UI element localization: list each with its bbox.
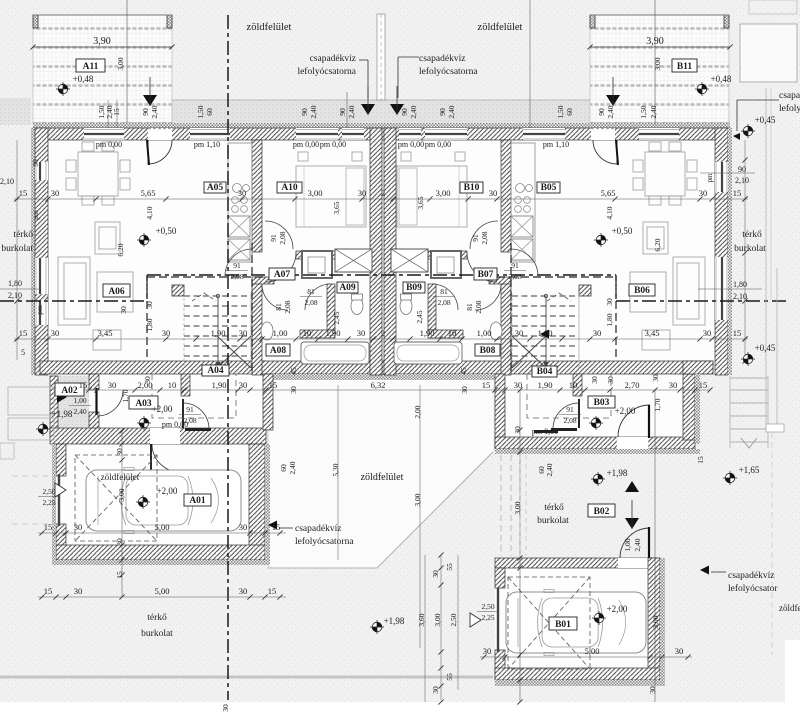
svg-text:1,00: 1,00 [73,396,86,405]
svg-text:3,00: 3,00 [513,501,522,514]
svg-text:A03: A03 [135,399,152,409]
svg-text:1,80: 1,80 [605,313,614,326]
svg-text:+1,98: +1,98 [607,468,628,478]
svg-text:15: 15 [112,108,121,116]
svg-text:+1,98: +1,98 [384,616,405,626]
svg-text:91: 91 [186,405,194,414]
svg-text:15: 15 [269,380,278,390]
svg-text:+0,45: +0,45 [755,343,776,353]
svg-text:81: 81 [465,303,474,311]
svg-text:1,90: 1,90 [420,328,435,338]
svg-text:90: 90 [738,165,746,174]
svg-text:A01: A01 [189,496,206,506]
svg-text:2,40: 2,40 [649,105,658,118]
svg-text:2,40: 2,40 [606,105,615,118]
svg-text:1,90: 1,90 [212,380,227,390]
svg-text:2,10: 2,10 [0,177,14,186]
svg-text:2,08: 2,08 [230,272,243,281]
svg-text:2: 2 [381,188,385,198]
svg-text:30: 30 [145,301,154,309]
svg-text:2,40: 2,40 [447,105,456,118]
svg-text:10: 10 [448,328,457,338]
svg-text:burkolat: burkolat [734,244,766,254]
svg-text:15: 15 [699,380,708,390]
svg-text:2,40: 2,40 [409,105,418,118]
svg-text:3,00: 3,00 [117,488,126,501]
svg-text:1,80: 1,80 [733,280,747,289]
svg-text:15: 15 [482,380,491,390]
svg-text:15: 15 [79,380,88,390]
svg-text:térkő: térkő [742,230,762,240]
svg-text:pm: pm [706,173,714,183]
svg-text:90: 90 [300,108,309,116]
svg-text:2: 2 [381,328,385,338]
svg-text:30: 30 [699,188,708,198]
svg-text:2,40: 2,40 [150,105,159,118]
svg-text:A10: A10 [281,183,298,193]
svg-text:30: 30 [143,376,152,384]
svg-text:A07: A07 [274,270,291,280]
svg-text:+2,00: +2,00 [607,604,628,614]
svg-text:30: 30 [593,328,602,338]
svg-text:zöldfelület: zöldfelület [478,22,523,33]
svg-text:90: 90 [400,108,409,116]
svg-text:pm 0,00: pm 0,00 [532,427,558,436]
svg-text:burkolat: burkolat [537,516,569,526]
svg-text:1,90: 1,90 [538,380,553,390]
svg-text:1,80: 1,80 [8,279,22,288]
svg-text:burkolat: burkolat [1,244,33,254]
svg-text:pm 1,10: pm 1,10 [194,140,220,149]
svg-text:B05: B05 [541,183,557,193]
svg-text:B11: B11 [677,62,693,72]
svg-text:30: 30 [74,522,83,532]
svg-text:91: 91 [566,405,574,414]
svg-text:90: 90 [338,108,347,116]
svg-text:2,08: 2,08 [283,300,292,313]
svg-text:lefolyócsatorna: lefolyócsatorna [779,103,800,114]
svg-text:15: 15 [44,522,53,532]
svg-text:2,10: 2,10 [735,176,749,185]
svg-text:15: 15 [733,328,742,338]
svg-text:2,40: 2,40 [347,105,356,118]
svg-text:csapadékvíz: csapadékvíz [295,524,341,534]
svg-text:2,08: 2,08 [563,416,576,425]
svg-text:2,40: 2,40 [633,538,642,551]
svg-text:B04: B04 [537,367,553,377]
svg-text:91: 91 [233,261,241,270]
svg-text:pm 0,00: pm 0,00 [293,140,319,149]
svg-text:2,70: 2,70 [625,380,640,390]
svg-text:81: 81 [274,303,283,311]
svg-text:pm: pm [31,210,40,220]
svg-text:60: 60 [565,108,574,116]
svg-text:30: 30 [431,570,440,578]
svg-text:csapadékvíz: csapadékvíz [419,54,465,64]
svg-text:5,30: 5,30 [331,463,340,476]
svg-text:+2,00: +2,00 [615,406,636,416]
svg-text:91: 91 [471,234,480,242]
svg-text:B08: B08 [480,346,496,356]
svg-text:30: 30 [115,448,124,456]
svg-text:1,90: 1,90 [211,328,226,338]
svg-text:+0,50: +0,50 [612,226,633,236]
svg-text:81: 81 [307,287,315,296]
svg-text:30: 30 [358,188,367,198]
svg-text:3,00: 3,00 [436,188,451,198]
svg-text:45: 45 [289,367,298,375]
svg-text:A11: A11 [83,62,99,72]
svg-text:2,40: 2,40 [73,407,86,416]
svg-text:3,65: 3,65 [416,196,425,209]
svg-text:3,00: 3,00 [653,57,662,70]
svg-text:30: 30 [239,328,248,338]
svg-text:2,40: 2,40 [545,463,554,476]
svg-text:30: 30 [513,426,522,434]
svg-text:+1,65: +1,65 [739,465,760,475]
svg-text:+1,98: +1,98 [52,409,73,419]
svg-text:+2,00: +2,00 [157,486,178,496]
svg-text:15: 15 [268,586,277,596]
svg-text:5: 5 [21,348,25,357]
svg-text:A09: A09 [339,283,356,293]
svg-text:B10: B10 [464,183,480,193]
svg-text:1,70: 1,70 [121,389,130,402]
svg-text:A05: A05 [207,183,224,193]
svg-text:10: 10 [303,328,312,338]
svg-text:1,00: 1,00 [623,538,632,551]
svg-text:30: 30 [605,298,614,306]
svg-text:lefolyócsator: lefolyócsator [728,583,778,594]
svg-text:30: 30 [515,328,524,338]
svg-text:30: 30 [431,686,440,694]
svg-text:A04: A04 [207,366,224,376]
svg-text:B09: B09 [406,283,422,293]
svg-text:A06: A06 [108,287,125,297]
svg-text:30: 30 [108,380,117,390]
svg-text:1,50: 1,50 [556,105,565,118]
svg-text:2,25: 2,25 [481,613,494,622]
svg-text:2,50: 2,50 [481,602,494,611]
svg-text:2,50: 2,50 [449,613,458,626]
svg-text:B06: B06 [634,286,650,296]
svg-text:15: 15 [696,456,705,464]
svg-text:2,08: 2,08 [278,231,287,244]
svg-text:1,70: 1,70 [653,398,662,411]
svg-text:2,40: 2,40 [309,105,318,118]
svg-text:A08: A08 [270,346,287,356]
svg-text:csapadékvíz: csapadékvíz [310,54,356,64]
svg-text:30: 30 [648,686,657,694]
svg-text:2,08: 2,08 [480,231,489,244]
svg-text:30: 30 [489,188,498,198]
svg-text:90: 90 [141,108,150,116]
svg-text:csapadékvíz: csapadékvíz [728,571,774,581]
svg-text:2,10: 2,10 [733,292,747,301]
svg-text:4,10: 4,10 [605,206,614,219]
svg-text:10: 10 [168,380,177,390]
svg-text:45: 45 [459,367,468,375]
svg-text:3,00: 3,00 [116,57,125,70]
svg-text:3,00: 3,00 [651,615,660,628]
svg-text:pm 0,00: pm 0,00 [398,140,424,149]
svg-text:2,08: 2,08 [437,298,450,307]
svg-text:30: 30 [239,380,248,390]
svg-text:pm 0,00: pm 0,00 [96,140,122,149]
svg-text:55: 55 [445,673,454,681]
svg-text:30: 30 [51,188,60,198]
svg-text:+0,48: +0,48 [73,74,94,84]
svg-text:2,00: 2,00 [413,405,422,418]
svg-text:2,08: 2,08 [474,300,483,313]
svg-text:2,08: 2,08 [183,416,196,425]
svg-text:30: 30 [239,586,248,596]
svg-text:1,00: 1,00 [477,328,492,338]
svg-text:81: 81 [440,287,448,296]
svg-text:30: 30 [590,376,599,384]
svg-text:2,10: 2,10 [8,291,22,300]
svg-text:2,08: 2,08 [508,272,521,281]
svg-text:1,50: 1,50 [196,105,205,118]
svg-text:1,50: 1,50 [639,105,648,118]
svg-text:2,45: 2,45 [332,311,341,324]
svg-text:pm 1,10: pm 1,10 [543,140,569,149]
svg-text:térkő: térkő [147,613,167,623]
svg-text:burkolat: burkolat [141,629,173,639]
svg-text:5,65: 5,65 [141,188,156,198]
svg-text:3,90: 3,90 [646,36,664,47]
svg-text:90: 90 [597,108,606,116]
svg-text:30: 30 [51,328,60,338]
svg-text:2,25: 2,25 [42,498,55,507]
svg-text:30: 30 [162,328,171,338]
svg-text:91: 91 [269,234,278,242]
svg-text:+0,50: +0,50 [156,226,177,236]
svg-text:5,00: 5,00 [155,522,170,532]
svg-text:60: 60 [205,108,214,116]
svg-text:lefolyócsatorna: lefolyócsatorna [295,536,354,547]
svg-text:5,65: 5,65 [601,188,616,198]
svg-text:pm: pm [35,305,44,315]
svg-text:5,00: 5,00 [585,646,600,656]
svg-text:10: 10 [569,380,578,390]
svg-text:90: 90 [31,159,40,167]
svg-text:B02: B02 [594,507,610,517]
svg-text:6,32: 6,32 [371,380,386,390]
svg-text:3,65: 3,65 [332,201,341,214]
svg-text:zöldfelület: zöldfelület [247,22,292,33]
svg-text:4,10: 4,10 [145,206,154,219]
svg-text:B07: B07 [478,270,494,280]
svg-text:B03: B03 [594,398,610,408]
svg-text:30: 30 [606,376,615,384]
svg-text:2,45: 2,45 [415,310,424,323]
svg-text:30: 30 [119,306,128,314]
svg-text:30: 30 [675,646,684,656]
svg-text:30: 30 [239,522,248,532]
svg-text:pm 0,00: pm 0,00 [320,140,346,149]
svg-text:15: 15 [115,571,124,579]
svg-text:5,00: 5,00 [155,586,170,596]
svg-text:90: 90 [438,108,447,116]
svg-text:15: 15 [272,522,281,532]
svg-text:30: 30 [483,646,492,656]
svg-text:B01: B01 [555,620,571,630]
svg-text:3,60: 3,60 [417,613,426,626]
svg-text:pm 0,00: pm 0,00 [425,140,451,149]
svg-text:2,50: 2,50 [42,487,55,496]
svg-text:30: 30 [238,188,247,198]
svg-text:30: 30 [514,380,523,390]
svg-text:15: 15 [733,188,742,198]
svg-text:1,90: 1,90 [326,328,341,338]
svg-text:30: 30 [651,374,660,382]
svg-text:+2,00: +2,00 [152,404,173,414]
svg-text:30: 30 [74,586,83,596]
svg-text:15: 15 [19,188,28,198]
svg-text:térkő: térkő [544,503,564,513]
svg-text:+0,48: +0,48 [711,74,732,84]
svg-text:+0,45: +0,45 [755,115,776,125]
svg-text:3,00: 3,00 [413,493,422,506]
svg-text:60: 60 [279,464,288,472]
svg-text:6,20: 6,20 [116,243,125,256]
svg-text:6,20: 6,20 [653,238,662,251]
svg-text:2,08: 2,08 [304,298,317,307]
svg-text:30: 30 [357,328,366,338]
svg-text:lefolyócsatorna: lefolyócsatorna [297,66,356,77]
svg-text:csapadékvíz: csapadékvíz [779,91,800,101]
svg-text:lefolyócsatorna: lefolyócsatorna [419,66,478,77]
svg-text:zöldfelület: zöldfelület [361,472,404,483]
svg-text:zöldfelület: zöldfelület [101,472,140,482]
svg-text:30: 30 [289,386,298,394]
svg-text:3,00: 3,00 [308,188,323,198]
svg-text:1,80: 1,80 [145,318,154,331]
svg-text:3,00: 3,00 [433,613,442,626]
svg-text:1,00: 1,00 [273,328,288,338]
svg-text:1,90: 1,90 [538,328,553,338]
svg-text:91: 91 [511,261,519,270]
svg-text:30: 30 [703,328,712,338]
svg-text:15: 15 [19,328,28,338]
svg-text:3,45: 3,45 [645,328,660,338]
svg-text:3,90: 3,90 [93,36,111,47]
svg-text:55: 55 [445,563,454,571]
svg-text:2,40: 2,40 [288,461,297,474]
svg-text:3,45: 3,45 [98,328,113,338]
svg-text:A02: A02 [61,386,78,396]
svg-text:30: 30 [221,704,230,712]
svg-text:15: 15 [44,586,53,596]
svg-text:30: 30 [460,386,469,394]
svg-text:zöldfelület: zöldfelület [779,603,800,613]
svg-text:térkő: térkő [13,230,33,240]
svg-text:30: 30 [115,538,124,546]
svg-text:30: 30 [669,380,678,390]
